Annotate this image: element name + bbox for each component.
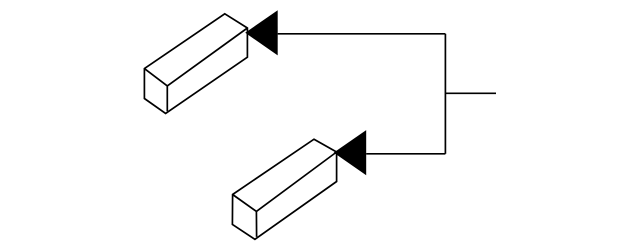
wire: common vertical bus bbox=[444, 34, 446, 154]
arrowhead / stylus element of top pickup bbox=[245, 10, 278, 55]
transducer cartridge body (top pickup) bbox=[144, 14, 247, 114]
wire: bottom pickup to bus bbox=[366, 153, 445, 155]
transducer cartridge body (bottom pickup) bbox=[232, 139, 336, 239]
wire: output stub from bus bbox=[445, 92, 496, 94]
wire: top pickup to bus bbox=[278, 33, 446, 35]
arrowhead / stylus element of bottom pickup bbox=[334, 130, 367, 175]
